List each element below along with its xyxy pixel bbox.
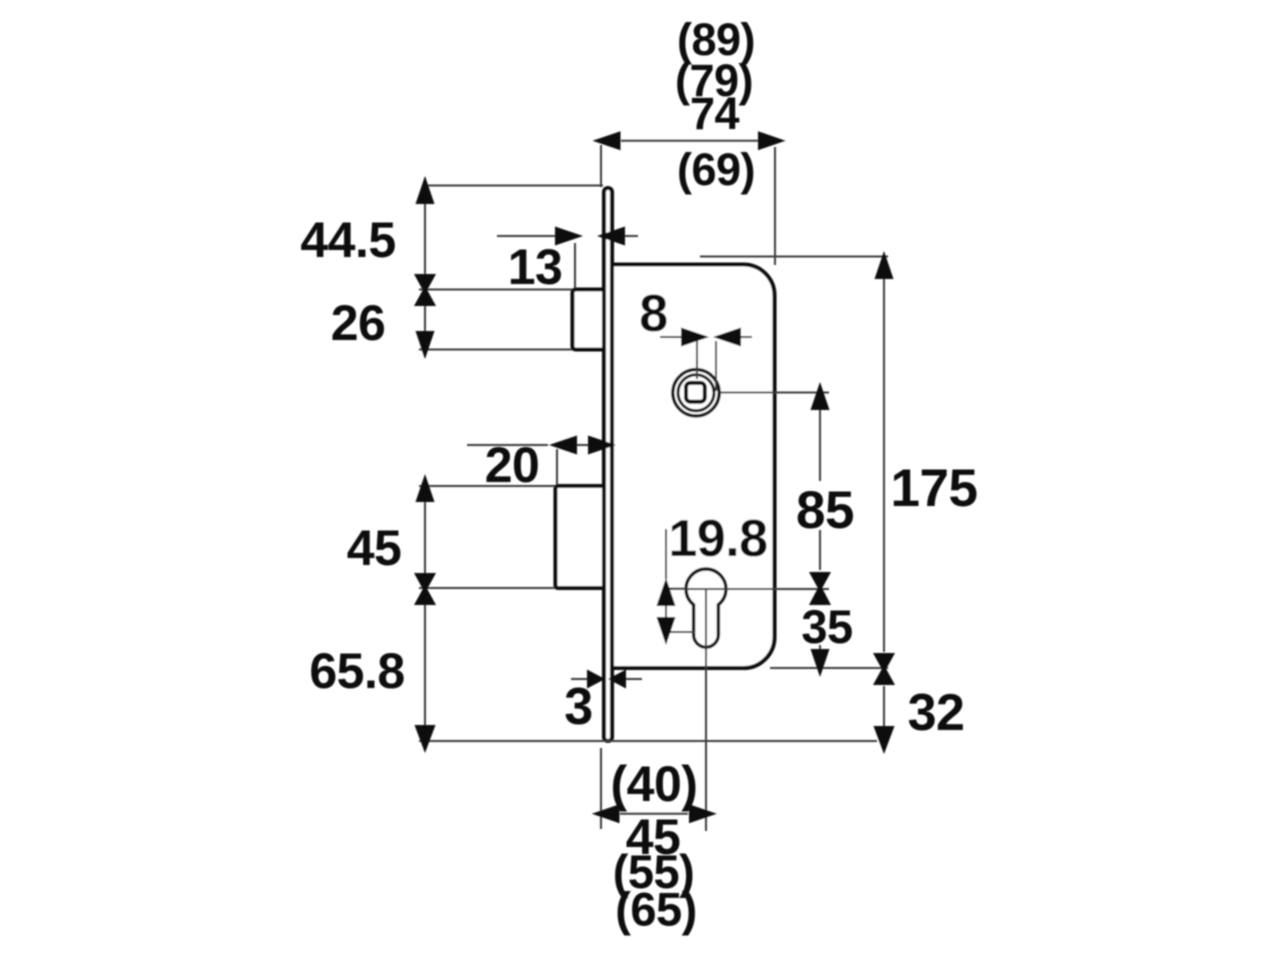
dimension (40) bottom [592, 804, 717, 823]
svg-text:175: 175 [891, 459, 978, 518]
label 26 [331, 295, 386, 351]
extension line latch bottom [419, 349, 572, 351]
dimension 85 / 35 [809, 382, 831, 677]
deadbolt [556, 486, 609, 588]
extension line 13 [574, 243, 576, 288]
dimension 45 / 65.8 left column [414, 474, 436, 753]
label 44.5 [300, 212, 395, 268]
label 175 [891, 459, 978, 518]
svg-text:3: 3 [564, 678, 592, 736]
label 85 [796, 481, 854, 540]
dimension 3 [571, 670, 642, 689]
extension line body bottom right [770, 667, 888, 669]
label 13 [508, 239, 563, 295]
svg-text:20: 20 [485, 437, 540, 493]
svg-text:85: 85 [796, 481, 854, 540]
extension line faceplate bottom [419, 740, 877, 742]
svg-text:19.8: 19.8 [668, 510, 767, 568]
label (69) [677, 144, 755, 195]
keyhole [686, 569, 726, 647]
extension line 8 right [715, 341, 717, 391]
extension line bottom dim left [600, 748, 602, 829]
label 32 [908, 684, 965, 742]
label 19.8 [668, 510, 767, 568]
label 45 bottom [626, 809, 681, 865]
dimension 74 top [593, 131, 786, 150]
extension line latch top [419, 289, 572, 291]
extension line top dim right [774, 147, 776, 265]
extension line 8 left [696, 341, 698, 379]
svg-text:8: 8 [639, 285, 667, 343]
label (89) [677, 14, 755, 65]
label 3 [564, 678, 592, 736]
dimension 44.5 / 26 left column [414, 176, 436, 359]
extension line deadbolt bottom [419, 587, 555, 589]
label 74 [690, 88, 740, 139]
dimension 20 [467, 436, 616, 455]
extension line top dim left [600, 145, 602, 187]
latchbolt [573, 290, 609, 350]
dimension 13 [497, 227, 638, 246]
label (40) [611, 756, 698, 812]
dimension 19.8 [657, 529, 696, 645]
centre line keyhole vertical [705, 589, 707, 831]
label 20 [485, 437, 540, 493]
label 45 left [347, 520, 402, 576]
extension line deadbolt top [419, 485, 555, 487]
svg-text:65.8: 65.8 [309, 643, 404, 699]
svg-text:(40): (40) [611, 756, 698, 812]
lock body [606, 265, 775, 669]
label (65) [615, 883, 697, 936]
centre line spindle horizontal [721, 392, 829, 394]
extension line body top right [700, 256, 888, 258]
svg-text:74: 74 [690, 88, 740, 139]
svg-text:13: 13 [508, 239, 563, 295]
label (55) [613, 845, 695, 898]
dimension 8 [660, 328, 752, 347]
label (79) [675, 55, 753, 106]
svg-text:44.5: 44.5 [300, 212, 395, 268]
svg-text:45: 45 [347, 520, 402, 576]
label 65.8 [309, 643, 404, 699]
extension line faceplate top [424, 185, 603, 187]
svg-text:(65): (65) [615, 883, 697, 936]
dimension 175 / 32 [873, 251, 895, 754]
svg-text:(69): (69) [677, 144, 755, 195]
svg-text:32: 32 [908, 684, 965, 742]
spindle hole [673, 370, 719, 416]
svg-text:26: 26 [331, 295, 386, 351]
faceplate [604, 188, 612, 741]
label 35 [801, 600, 852, 653]
centre line keyhole horizontal [669, 588, 829, 590]
extension line 20 [556, 449, 558, 485]
svg-text:35: 35 [801, 600, 852, 653]
label 8 [639, 285, 667, 343]
